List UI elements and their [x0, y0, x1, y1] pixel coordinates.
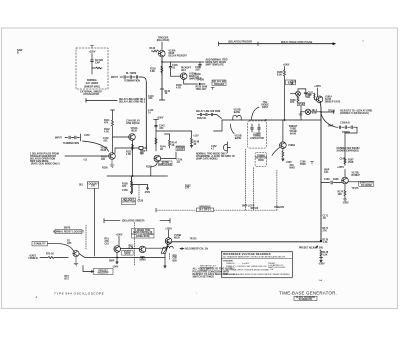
wire holdoff bus	[79, 254, 165, 258]
wire arc up	[231, 124, 235, 134]
node junction	[265, 120, 266, 121]
node V155B label box	[159, 161, 173, 166]
svg-text:SCHEMATIC: SCHEMATIC	[299, 298, 313, 301]
svg-text:TERMINATION: TERMINATION	[63, 142, 79, 145]
svg-text:EXT HORIZ: EXT HORIZ	[86, 83, 99, 85]
box sawtooth out	[359, 181, 374, 186]
svg-text:C160A-D: C160A-D	[340, 122, 350, 125]
resistor R160	[314, 93, 317, 100]
svg-text:.001: .001	[103, 141, 108, 143]
svg-text:SEL: SEL	[79, 185, 84, 187]
ground below V70	[74, 257, 78, 266]
node TNL DIODE ASSY label	[261, 102, 269, 109]
node EXTERNAL SWEEP ATTENUATOR	[80, 91, 102, 97]
svg-text:DL TERM: DL TERM	[126, 73, 136, 75]
node title TYPE 544	[54, 291, 104, 295]
node R161 label	[291, 82, 297, 86]
svg-text:.001: .001	[159, 128, 164, 130]
node L140 label	[148, 109, 154, 115]
wire link to V155A	[115, 148, 139, 153]
node sweep gate tube labels	[289, 126, 298, 136]
node dimension annotation delaying sweep	[104, 219, 170, 223]
node supply stub above box	[90, 45, 93, 48]
svg-text:VALUES: VALUES	[200, 269, 208, 272]
svg-text:.001: .001	[148, 98, 153, 100]
svg-text:MAG: MAG	[290, 167, 296, 170]
resistor R136	[161, 66, 163, 74]
wire dashed below pot	[169, 253, 171, 259]
svg-text:SWP: SWP	[109, 261, 115, 263]
svg-text:(FREE RUN): (FREE RUN)	[136, 236, 150, 238]
wire dashed switch bus	[157, 209, 277, 211]
wire lamp loop	[291, 89, 306, 94]
svg-text:SWITCH SETTINGS: SWITCH SETTINGS	[193, 277, 215, 279]
svg-text:ADJ: ADJ	[181, 69, 186, 72]
tube V152A	[129, 134, 136, 141]
resistor R147	[165, 134, 171, 148]
svg-text:C158: C158	[122, 190, 128, 192]
box holdoff cap	[122, 198, 136, 205]
potentiometer sweep cal	[161, 247, 167, 253]
wire arc to timing caps	[321, 114, 336, 128]
svg-text:2K: 2K	[194, 144, 197, 146]
svg-text:ALL READINGS TAKEN WITH CONTRO: ALL READINGS TAKEN WITH CONTROLS SET AS …	[223, 256, 285, 259]
capacitor C105	[91, 60, 94, 68]
svg-text:+225V: +225V	[314, 86, 321, 88]
svg-text:NO SIGNAL INPUT. TRIGGER MOD: NO SIGNAL INPUT. TRIGGER MODE NORMAL	[226, 268, 270, 271]
svg-text:6DJ8: 6DJ8	[174, 238, 180, 240]
svg-text:R133: R133	[150, 48, 156, 50]
box connector J70	[88, 182, 99, 189]
svg-text:R70 1K: R70 1K	[46, 254, 54, 256]
svg-text:SWP: SWP	[328, 126, 334, 128]
node title TIME-BASE GENERATOR	[279, 291, 337, 296]
svg-text:SW70: SW70	[64, 228, 71, 230]
svg-text:TP136: TP136	[197, 80, 205, 82]
svg-text:B167: B167	[312, 112, 318, 114]
node note all +gate	[193, 268, 236, 279]
svg-text:-150V: -150V	[112, 267, 119, 269]
ground below V155A	[110, 159, 114, 167]
wire into bus	[213, 115, 222, 119]
wire plate right	[146, 247, 166, 249]
node C167 label	[340, 159, 346, 161]
resistor R144	[155, 138, 157, 144]
capacitor C152 row	[198, 113, 213, 116]
node +12V column	[193, 136, 199, 138]
svg-text:6AU6: 6AU6	[124, 253, 131, 256]
lamp B166	[296, 91, 301, 96]
wire plate right to output box	[348, 181, 359, 183]
wire V155B plate right	[161, 152, 176, 159]
wire grid up to bus	[282, 120, 284, 142]
node R140 label	[165, 90, 171, 95]
node page mark center	[196, 293, 198, 295]
svg-text:HOLDOFF: HOLDOFF	[98, 273, 110, 275]
svg-text:4.7K: 4.7K	[176, 87, 181, 90]
node R150 label top center	[196, 86, 208, 91]
node NORMAL label	[84, 79, 100, 89]
svg-text:6AU6: 6AU6	[290, 133, 297, 136]
node TO HORIZ AMP label	[281, 41, 313, 44]
node junction	[132, 175, 133, 176]
node delay line input row	[86, 99, 117, 103]
svg-text:(CONSULT FOR DETAILS): (CONSULT FOR DETAILS)	[340, 112, 369, 115]
lamp B167	[305, 109, 310, 114]
capacitor C180	[321, 181, 342, 184]
wire dashed link sw length	[244, 149, 246, 210]
wire below V135B	[184, 80, 186, 85]
svg-text:REFERENCE VOLTAGE READINGS: REFERENCE VOLTAGE READINGS	[223, 252, 271, 256]
node label left edge	[17, 49, 23, 55]
svg-text:CAP: CAP	[95, 62, 100, 65]
svg-text:MULTI-TRACE SYNC PULSE: MULTI-TRACE SYNC PULSE	[281, 41, 313, 44]
node junction	[321, 112, 322, 113]
wire dashed link bottom	[134, 223, 136, 266]
svg-text:ADJ SWEEP CAL 1%: ADJ SWEEP CAL 1%	[185, 248, 209, 251]
resistor R164	[282, 149, 284, 160]
svg-text:27K: 27K	[323, 230, 328, 232]
inductor L64 humps	[166, 246, 173, 248]
resistor R167	[344, 158, 346, 164]
box min trig sens	[132, 229, 155, 239]
svg-text:AMPLIFIER: AMPLIFIER	[159, 163, 172, 166]
svg-text:TP175: TP175	[190, 239, 198, 241]
node dot	[363, 41, 364, 42]
tube V61 holdoff	[114, 246, 121, 253]
box timing capacitor dashed	[247, 121, 266, 148]
tube V173A	[165, 238, 172, 245]
wire	[91, 54, 93, 61]
node R61 labels	[105, 239, 110, 246]
svg-text:C158: C158	[138, 201, 144, 203]
svg-text:47K: 47K	[104, 122, 109, 125]
svg-text:TERMINATION: TERMINATION	[124, 80, 140, 83]
svg-text:BASE: BASE	[234, 111, 241, 114]
wire dashed lockout link	[94, 189, 96, 257]
wire main horizontal bus	[222, 119, 321, 121]
svg-text:LINE EQUAL: LINE EQUAL	[126, 122, 141, 125]
svg-text:(SWEEP MAG): (SWEEP MAG)	[84, 86, 100, 89]
resistor R105	[92, 67, 102, 69]
svg-text:+225V: +225V	[89, 52, 96, 54]
wire	[161, 42, 163, 50]
svg-text:ASSY: ASSY	[262, 106, 269, 109]
tube V135A	[159, 50, 166, 57]
svg-text:+12V: +12V	[193, 136, 199, 138]
box probe loading	[176, 146, 185, 150]
svg-text:B85: B85	[173, 261, 178, 263]
svg-text:STABILITY: STABILITY	[34, 243, 46, 246]
node +225V in dashed box	[89, 52, 96, 54]
node see parts list note	[200, 265, 217, 272]
svg-text:4.7K: 4.7K	[323, 241, 328, 244]
capacitor C143	[155, 126, 158, 127]
resistor R148	[190, 131, 192, 147]
wire arc from TNL label	[252, 107, 260, 120]
box B168	[286, 80, 296, 85]
svg-text:2K: 2K	[172, 145, 175, 147]
svg-text:INPUT: INPUT	[111, 77, 119, 79]
node V152A label	[130, 127, 137, 133]
wire from stability	[48, 244, 74, 251]
capacitor C150 input row	[65, 134, 81, 141]
ground left of lamp	[299, 112, 303, 116]
box voltage reference notes	[221, 251, 292, 277]
resistor R158 column below bus	[130, 176, 132, 194]
capacitor C160 in box	[251, 124, 261, 132]
svg-text:TIME-BASE GENERATOR.: TIME-BASE GENERATOR.	[279, 291, 337, 296]
wire sweep output left y156	[65, 155, 109, 157]
wire grid left	[113, 136, 129, 138]
svg-text:DELAY LINE 186 OHM: DELAY LINE 186 OHM	[196, 110, 220, 113]
tube V155A	[109, 153, 116, 160]
svg-text:TP167: TP167	[298, 104, 306, 106]
resistor R178	[320, 250, 322, 256]
box preset holdoff	[94, 269, 114, 275]
box SW70 trigger coupling	[55, 230, 82, 234]
node R162 label	[185, 186, 191, 190]
svg-text:STABILITY CONTROL SET (FREE RU: STABILITY CONTROL SET (FREE RUN) CW	[226, 265, 267, 268]
node tick at bottom of pickoff line	[159, 89, 165, 100]
svg-text:(RATE GEN. MODE ONLY): (RATE GEN. MODE ONLY)	[31, 163, 60, 166]
node SWP LIN label	[140, 151, 146, 155]
svg-text:4.7K: 4.7K	[104, 131, 109, 134]
dashed box horizontal display shield	[76, 48, 108, 89]
wire plate bus right	[162, 61, 204, 63]
resistor R161	[300, 106, 302, 120]
svg-text:(DELAYED) TRIGGER: (DELAYED) TRIGGER	[228, 41, 252, 44]
tube V173B miller runup	[342, 177, 349, 184]
node PRESET ADJUST note	[299, 247, 323, 250]
wire cathode down	[132, 140, 134, 176]
node +100V feed	[157, 117, 164, 119]
wire long bus to right vertical	[172, 241, 321, 243]
tube V135B	[180, 73, 187, 80]
svg-text:SHOWN EXPANDED: SHOWN EXPANDED	[337, 150, 360, 153]
node normal trig note	[196, 153, 235, 161]
wire below V173A	[167, 244, 169, 247]
resistor R174	[344, 184, 346, 199]
node +100V bottom	[116, 234, 123, 236]
svg-text:1-A: 1-A	[319, 279, 323, 282]
node SWP B label	[324, 170, 330, 175]
node R171 C171 labels on main right vertical	[323, 216, 329, 221]
node ADJUST note	[340, 110, 372, 116]
svg-text:8.2K: 8.2K	[277, 75, 282, 77]
wire pot bottom down	[164, 253, 166, 267]
svg-text:CAPACITOR: CAPACITOR	[250, 137, 264, 140]
node R152 label	[146, 167, 152, 169]
svg-text:BASE: BASE	[235, 137, 242, 140]
node ADJ SWEEP CAL note	[180, 248, 184, 250]
svg-text:PRESET ADJUST S/N: PRESET ADJUST S/N	[299, 247, 323, 250]
svg-text:.005: .005	[195, 70, 200, 72]
svg-text:1K: 1K	[165, 93, 168, 95]
wire bus y131	[156, 130, 192, 132]
capacitor C136	[169, 62, 172, 72]
svg-text:6DJ8: 6DJ8	[101, 150, 107, 152]
box TO TRIGGER	[212, 80, 226, 85]
node junction tick	[257, 42, 259, 45]
svg-text:-150V: -150V	[144, 192, 151, 194]
svg-text:V161B: V161B	[288, 145, 295, 147]
capacitor C160 timing row	[336, 126, 357, 129]
wire main vertical left	[145, 82, 147, 149]
node +225V mid right	[337, 167, 344, 169]
wire TP lead right	[321, 110, 334, 113]
node +100V top right dropper	[283, 65, 290, 67]
node V152B BASE label	[233, 110, 240, 115]
tube V155B	[154, 155, 161, 162]
wire arc to V155A	[83, 141, 109, 152]
svg-text:+100V: +100V	[116, 234, 123, 236]
svg-text:ATTENUATOR: ATTENUATOR	[83, 93, 99, 96]
svg-text:-150V: -150V	[318, 264, 325, 266]
node grid stub tick	[111, 110, 115, 120]
svg-text:R152 93: R152 93	[197, 118, 207, 120]
wire dashed link timing res	[252, 168, 254, 211]
box title stamp	[294, 296, 317, 300]
wire dashed link right	[276, 170, 278, 210]
svg-text:SWEEP GATE: SWEEP GATE	[325, 101, 341, 104]
wire arrow into preset box	[83, 266, 94, 273]
svg-text:CAL: CAL	[324, 171, 329, 174]
svg-text:SWP TEMPLATE: SWP TEMPLATE	[206, 64, 225, 67]
capacitor C139	[199, 62, 202, 68]
svg-text:PULSES ARE COINCIDENT WITH: PULSES ARE COINCIDENT WITH	[193, 270, 230, 273]
node connected sw note	[337, 148, 361, 153]
node junction dot	[320, 240, 322, 242]
resistor R70	[40, 257, 68, 259]
node junction	[162, 62, 163, 63]
svg-text:RUNUP: RUNUP	[352, 175, 361, 177]
svg-text:(DELAYING SWEEP): (DELAYING SWEEP)	[122, 220, 145, 223]
ground -150V gate	[282, 159, 284, 161]
node +225V above V161	[314, 86, 321, 88]
node junction	[117, 257, 118, 258]
svg-text:TP161: TP161	[328, 110, 336, 112]
svg-text:16K: 16K	[338, 194, 343, 196]
svg-text:1.5K: 1.5K	[323, 254, 328, 256]
node V61 label box	[122, 251, 134, 256]
svg-text:+100V: +100V	[283, 65, 290, 67]
svg-text:R180: R180	[333, 179, 339, 181]
svg-text:TRIGGER: TRIGGER	[214, 84, 225, 86]
svg-text:6DJ8: 6DJ8	[131, 131, 137, 133]
svg-text:47K: 47K	[122, 185, 127, 188]
svg-text:(SWP GATE MODE): (SWP GATE MODE)	[196, 158, 218, 161]
svg-text:TYPE 544 OSCILLOSCOPE: TYPE 544 OSCILLOSCOPE	[54, 291, 104, 295]
tube V70 reset	[73, 250, 79, 256]
svg-text:1.5K: 1.5K	[126, 154, 131, 156]
svg-text:D45: D45	[67, 242, 72, 245]
svg-text:R166: R166	[300, 164, 306, 166]
svg-text:DELAY-LINE GRID NO.1: DELAY-LINE GRID NO.1	[119, 98, 146, 101]
node note ADD NORMAL	[206, 59, 228, 67]
wire -150V lead	[132, 185, 149, 190]
node C166 R166 labels	[300, 162, 306, 166]
wire TP lead	[186, 83, 205, 85]
svg-text:TD: TD	[140, 154, 143, 156]
diode T155 pickoff	[139, 145, 146, 151]
node (DELAYED) TRIGGER label	[228, 41, 252, 44]
svg-text:DELAY-LINE GRID NO.2: DELAY-LINE GRID NO.2	[119, 100, 146, 103]
svg-text:SENS: SENS	[139, 260, 146, 262]
wire right column down	[345, 127, 357, 163]
svg-text:TP175: TP175	[352, 188, 360, 190]
svg-text:FROM B: FROM B	[29, 258, 39, 260]
svg-text:R156: R156	[102, 168, 108, 170]
svg-text:+225V: +225V	[337, 167, 344, 169]
wire cathode down to bus	[320, 103, 321, 242]
tube V161B	[280, 142, 287, 149]
node tiny mark 1-A	[319, 279, 323, 282]
svg-text:4.7K: 4.7K	[129, 246, 134, 249]
node junction	[142, 257, 143, 258]
node TD label	[67, 241, 72, 245]
svg-text:6.8K: 6.8K	[150, 71, 155, 73]
svg-text:SW160: SW160	[251, 208, 259, 210]
svg-text:39K: 39K	[306, 97, 311, 99]
ground -150V right	[320, 255, 322, 262]
box stability	[32, 242, 48, 246]
wire curve into vertical	[142, 77, 146, 82]
svg-text:17K: 17K	[185, 188, 190, 190]
resistor R151	[132, 144, 134, 150]
svg-text:CAPACITOR: CAPACITOR	[122, 201, 136, 204]
resistor R166a	[297, 96, 299, 102]
svg-text:1K: 1K	[291, 84, 294, 86]
svg-text:R160: R160	[258, 160, 264, 162]
svg-text:10-1 OR 2-1: 10-1 OR 2-1	[199, 210, 213, 212]
wire V155B cathode to bus	[151, 162, 158, 176]
wire lamp leads	[301, 111, 321, 113]
node R62 label	[129, 245, 134, 249]
svg-text:TO HORIZ: TO HORIZ	[361, 185, 373, 187]
svg-text:B72: B72	[65, 279, 70, 281]
node revision mark	[36, 296, 38, 299]
svg-text:TRIG CKT: TRIG CKT	[196, 89, 208, 91]
svg-text:C180: C180	[324, 179, 330, 181]
svg-text:DELAY PICKOFF: DELAY PICKOFF	[169, 55, 188, 58]
svg-text:NORMAL RESET LOCKOUT: NORMAL RESET LOCKOUT	[53, 231, 84, 234]
resistor R168	[284, 70, 286, 79]
node EXT TRIG IN label	[111, 77, 119, 79]
wire arc left below	[272, 147, 280, 156]
node PICKOFF ADJ	[181, 68, 192, 73]
svg-text:NORMAL: NORMAL	[87, 79, 98, 82]
inductor L152 humps	[233, 115, 241, 120]
node tick	[320, 256, 323, 258]
svg-text:250K: 250K	[348, 162, 354, 164]
wire bus y176	[107, 175, 168, 177]
svg-text:4K: 4K	[160, 148, 163, 151]
svg-text:VARIABLE: VARIABLE	[199, 205, 211, 208]
ground -150V miller	[343, 199, 347, 201]
svg-text:C61: C61	[105, 244, 110, 246]
node +GATE label	[29, 255, 39, 261]
svg-text:(DELAYED): (DELAYED)	[157, 39, 170, 42]
svg-text:R152: R152	[146, 167, 152, 169]
box TP167	[297, 103, 304, 106]
svg-text:-150V: -150V	[286, 162, 293, 164]
svg-text:C85: C85	[173, 258, 178, 260]
wire cathode down	[161, 57, 163, 100]
wire grid link	[171, 72, 181, 76]
node +225V above V135A	[157, 38, 170, 43]
box timing resistor dashed	[255, 152, 267, 166]
